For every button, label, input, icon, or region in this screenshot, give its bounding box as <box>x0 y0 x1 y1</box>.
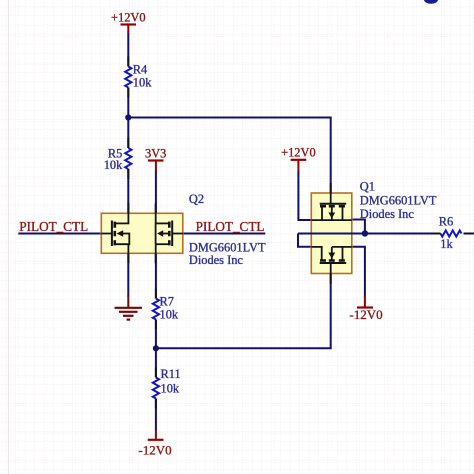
resistor R7 <box>153 295 179 322</box>
ground <box>115 296 143 320</box>
lower FET tie and right lead <box>332 246 352 248</box>
lower FET left lead and contact <box>311 247 321 260</box>
wire junction to R11 <box>155 348 157 377</box>
resistor R11 <box>153 367 181 399</box>
upper FET right contact <box>342 207 344 221</box>
upper FET gate bar <box>320 203 347 205</box>
svg-text:R7: R7 <box>160 295 174 309</box>
right FET gate bar <box>171 221 173 247</box>
svg-text:PILOT_CTL: PILOT_CTL <box>19 219 88 234</box>
wire Q1 lower source elbow <box>298 234 311 247</box>
upper FET channel segments <box>320 205 345 208</box>
wire R11 to -12V0 <box>155 399 157 431</box>
right FET channel segments <box>168 222 171 246</box>
pin R4.2 <box>127 88 129 98</box>
wire PILOT_CTL left <box>18 233 101 235</box>
left FET drain lead <box>115 222 130 224</box>
svg-text:+12V0: +12V0 <box>111 11 146 25</box>
wire R4 to R5 <box>127 88 129 149</box>
power port 3V3 <box>145 147 166 173</box>
pin R5.1 <box>127 138 129 148</box>
wire 3V3 to Q2 <box>155 171 157 213</box>
pin Q1 bottom <box>330 274 332 284</box>
sheet border <box>8 0 10 474</box>
pin R11.2 <box>155 399 157 409</box>
wire R7 to junction <box>155 320 157 349</box>
svg-text:-12V0: -12V0 <box>138 443 171 458</box>
svg-text:PILOT_CTL: PILOT_CTL <box>196 219 265 234</box>
junction node B dot redraw <box>362 230 368 236</box>
svg-text:10k: 10k <box>133 76 152 90</box>
svg-text:+12V0: +12V0 <box>281 145 316 159</box>
svg-text:DMG6601LVT: DMG6601LVT <box>189 240 266 254</box>
svg-text:-12V0: -12V0 <box>349 307 382 322</box>
junction node C (R7/R11) <box>153 345 159 351</box>
right FET body lead <box>163 233 169 235</box>
wire junction to Q1 gate (horizontal) <box>128 118 330 194</box>
right FET tie bar <box>155 223 157 244</box>
svg-text:R11: R11 <box>161 367 181 381</box>
wire PILOT_CTL right stub <box>183 233 265 235</box>
lower FET body stem <box>331 247 333 253</box>
svg-text:10k: 10k <box>161 382 180 396</box>
arrow lower FET <box>328 253 335 259</box>
pin R6.2 <box>464 233 474 235</box>
right FET gate pin <box>172 233 183 235</box>
arrow right FET <box>157 230 163 237</box>
right FET source lead <box>156 243 170 245</box>
svg-text:R4: R4 <box>133 63 147 77</box>
lower FET channel segments <box>320 259 345 262</box>
resistor R6 <box>439 215 462 251</box>
svg-text:Diodes Inc: Diodes Inc <box>360 207 415 221</box>
svg-text:1k: 1k <box>440 237 453 251</box>
power port -12V0 right <box>349 296 382 322</box>
svg-text:10k: 10k <box>104 158 123 172</box>
transistor Q2 <box>101 192 266 267</box>
junction node B (Q1 right) <box>362 230 368 236</box>
left FET channel segments <box>114 222 117 246</box>
svg-text:DMG6601LVT: DMG6601LVT <box>360 194 437 208</box>
wire through Q1 (drawn over box) <box>298 233 365 235</box>
pin R11.1 <box>155 368 157 378</box>
svg-text:10k: 10k <box>160 308 179 322</box>
wire Q1 upper drain to junction <box>352 220 365 234</box>
lower FET gate bar <box>320 262 347 264</box>
svg-text:3V3: 3V3 <box>145 147 166 161</box>
svg-text:Diodes Inc: Diodes Inc <box>189 253 244 267</box>
wire +12V0 to R4 <box>127 33 129 67</box>
title text fragment (cut off at top edge) <box>424 0 438 4</box>
wire junction to Q1 lower gate <box>156 274 331 349</box>
upper FET tie bar with leads <box>311 219 352 221</box>
resistor R5 <box>104 147 132 173</box>
pin R7.1 <box>155 289 157 299</box>
arrow upper FET <box>328 213 335 219</box>
wire Q1 lower drain to -12V0 <box>352 247 365 297</box>
junction node A (R4/R5) <box>125 114 131 120</box>
power port -12V0 bottom <box>138 430 171 458</box>
left FET gate bar <box>111 221 113 247</box>
pin stubs (black) <box>128 57 473 409</box>
lower FET gate pin <box>330 263 332 274</box>
pin Q2 top <box>127 203 129 213</box>
power port +12V0 top <box>111 11 146 35</box>
right FET drain lead <box>156 222 170 224</box>
left FET body lead and source tie <box>115 234 130 245</box>
svg-text:Q1: Q1 <box>360 180 375 194</box>
lower FET right contact <box>342 247 344 260</box>
svg-text:Q2: Q2 <box>189 192 204 206</box>
upper FET left contact <box>321 207 323 221</box>
wire +12V0 right to Q1 <box>298 171 311 221</box>
wire junction to R6 <box>365 233 441 235</box>
wire R5 to Q2 <box>127 169 129 213</box>
upper FET body stem <box>331 207 333 213</box>
upper FET gate pin <box>330 193 332 204</box>
pin Q2 bottom <box>127 253 129 263</box>
transistor Q1 <box>311 180 437 274</box>
pin Q1 top <box>330 183 332 193</box>
arrow left FET <box>117 230 124 237</box>
power port +12V0 right <box>281 145 316 171</box>
pin R7.2 <box>155 320 157 330</box>
svg-text:R6: R6 <box>439 215 453 229</box>
pin R6.1 <box>431 233 441 235</box>
wire R6 to edge <box>464 233 474 235</box>
pin R5.2 <box>127 169 129 179</box>
left FET gate pin <box>101 233 112 235</box>
resistor R4 <box>125 63 152 90</box>
wire Q2 source2 to R7 <box>155 253 157 298</box>
pin R4.1 <box>127 57 129 67</box>
wire Q2 source to ground <box>127 253 129 296</box>
